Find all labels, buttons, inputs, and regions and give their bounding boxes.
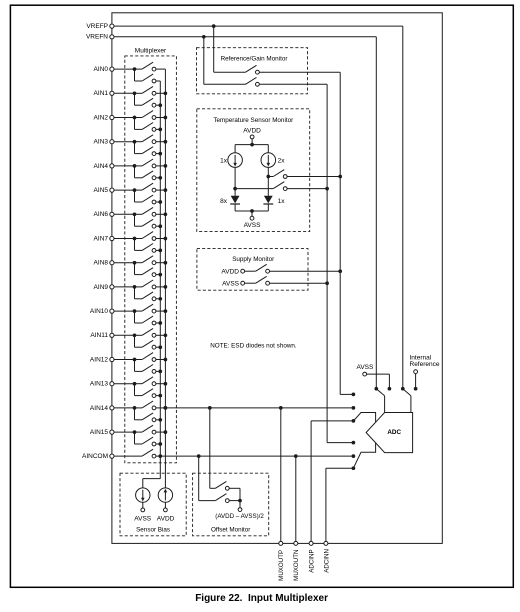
switch AIN13 to N bus xyxy=(134,384,136,396)
wire xyxy=(156,165,166,167)
junction VREFN / reference monitor xyxy=(202,35,206,39)
wire AIN14 input xyxy=(114,407,135,409)
junction net B xyxy=(325,281,329,285)
wire xyxy=(156,238,166,240)
junction N bus xyxy=(158,176,162,180)
switch AIN6 to P bus xyxy=(135,213,143,215)
junction N bus xyxy=(158,418,162,422)
wire xyxy=(156,141,166,143)
junction N bus xyxy=(158,273,162,277)
switch temp monitor upper xyxy=(268,176,273,178)
wire end dot at crossover (MUXOUTN) xyxy=(352,454,356,458)
switch AIN0 to N bus xyxy=(134,69,136,81)
wire end dot VREFP xyxy=(401,387,405,391)
svg-text:AIN11: AIN11 xyxy=(90,332,108,339)
svg-text:AINCOM: AINCOM xyxy=(82,453,108,460)
wire xyxy=(156,298,160,300)
wire xyxy=(156,80,160,82)
svg-text:AIN14: AIN14 xyxy=(90,405,108,412)
wire end dot at crossover (MUXOUTP) xyxy=(352,406,356,410)
svg-text:AIN12: AIN12 xyxy=(90,356,108,363)
switch AIN15 to P bus xyxy=(135,431,143,433)
junction N bus / AINCOM xyxy=(158,454,162,458)
wire AVDD rail xyxy=(235,144,268,146)
node (AVDD - AVSS)/2 xyxy=(239,501,241,508)
svg-text:ADCINP: ADCINP xyxy=(309,549,316,572)
svg-text:AIN8: AIN8 xyxy=(94,260,109,267)
wire AIN0 input xyxy=(114,68,135,70)
junction N bus xyxy=(158,394,162,398)
wire xyxy=(156,249,160,251)
wire xyxy=(229,487,240,489)
junction net B xyxy=(325,187,329,191)
switch AIN14 to N bus xyxy=(134,408,136,420)
svg-text:ADCINN: ADCINN xyxy=(323,549,330,573)
wire monitor net B vertical xyxy=(326,84,328,442)
junction AIN14 / MUXOUTP pin branch xyxy=(279,406,283,410)
switch reference monitor lower xyxy=(204,83,246,85)
svg-text:Offset Monitor: Offset Monitor xyxy=(211,527,250,534)
junction AIN10 xyxy=(133,309,137,313)
junction AIN4 xyxy=(133,164,137,168)
svg-text:AVSS: AVSS xyxy=(356,364,374,371)
switch AIN12 to P bus xyxy=(135,359,143,361)
temperature sensor monitor box xyxy=(197,109,310,232)
junction P bus xyxy=(164,188,168,192)
wire xyxy=(156,128,160,130)
wire VREFP to ADC reference switch xyxy=(114,25,403,27)
svg-text:AVSS: AVSS xyxy=(222,280,240,287)
op-amp ADC xyxy=(366,413,413,453)
switch AINCOM to N bus xyxy=(114,455,142,457)
switch AIN12 to N bus xyxy=(134,360,136,372)
multiplexer box xyxy=(125,56,177,463)
wire xyxy=(156,274,160,276)
svg-text:Sensor Bias: Sensor Bias xyxy=(136,527,170,534)
wire xyxy=(156,92,166,94)
svg-text:1x: 1x xyxy=(220,157,228,164)
wire xyxy=(156,419,160,421)
node MUXOUTN xyxy=(294,541,298,545)
junction P bus xyxy=(164,91,168,95)
switch AIN3 to N bus xyxy=(134,142,136,154)
junction N bus xyxy=(158,321,162,325)
wire end dot net B at crossover xyxy=(352,441,356,445)
diode 8x xyxy=(231,196,240,204)
supply monitor box xyxy=(197,249,308,291)
wire MUXOUTN net: AINCOM row across to crossover xyxy=(156,455,354,457)
junction P bus xyxy=(164,140,168,144)
switch AIN11 to N bus xyxy=(134,335,136,347)
junction AIN0 xyxy=(133,67,137,71)
junction right branch / upper switch xyxy=(266,175,270,179)
wire xyxy=(156,117,166,119)
wire end dot VREFN xyxy=(374,387,378,391)
switch AIN4 to P bus xyxy=(135,165,143,167)
wire xyxy=(156,104,160,106)
crossover switch symbol xyxy=(353,413,375,469)
svg-text:AIN10: AIN10 xyxy=(90,308,108,315)
switch AIN15 to N bus xyxy=(134,432,136,444)
wire P bus (outer) xyxy=(164,69,166,488)
svg-text:Reference/Gain Monitor: Reference/Gain Monitor xyxy=(221,55,288,62)
svg-text:AIN3: AIN3 xyxy=(94,139,109,146)
svg-text:NOTE: ESD diodes not shown.: NOTE: ESD diodes not shown. xyxy=(210,342,297,349)
wire xyxy=(156,370,160,372)
switch AIN9 to P bus xyxy=(135,286,143,288)
switch supply monitor AVSS xyxy=(245,282,256,284)
wire xyxy=(156,383,166,385)
switch AIN10 to P bus xyxy=(135,310,143,312)
node ADCINN xyxy=(324,541,328,545)
switch AIN7 to P bus xyxy=(135,238,143,240)
svg-text:(AVDD – AVSS)/2: (AVDD – AVSS)/2 xyxy=(215,513,264,520)
junction AINCOM / offset monitor branch xyxy=(197,454,201,458)
switch AIN2 to N bus xyxy=(134,118,136,130)
junction P bus / AIN14 row xyxy=(164,406,168,410)
current source 2x (temp) xyxy=(267,145,269,153)
junction P bus xyxy=(164,382,168,386)
junction P bus xyxy=(164,164,168,168)
wire xyxy=(156,334,166,336)
wire to monitor net A xyxy=(259,71,340,73)
node AVSS (temp sensor) xyxy=(251,211,253,216)
wire xyxy=(156,286,166,288)
junction AIN6 xyxy=(133,212,137,216)
junction N bus xyxy=(158,224,162,228)
current source I1 (to AVSS) xyxy=(136,488,150,502)
switch AIN3 to P bus xyxy=(135,141,143,143)
wire xyxy=(156,225,160,227)
wire xyxy=(229,500,240,502)
junction N bus xyxy=(158,442,162,446)
current source 1x (temp) xyxy=(234,145,236,153)
switch AIN4 to N bus xyxy=(134,166,136,178)
svg-text:AIN13: AIN13 xyxy=(90,381,108,388)
junction AIN3 xyxy=(133,140,137,144)
junction AINCOM / MUXOUTN pin branch xyxy=(294,454,298,458)
junction AIN13 xyxy=(133,382,137,386)
wire AINCOM branch into offset monitor xyxy=(198,456,200,501)
node MUXOUTP xyxy=(279,541,283,545)
wire AIN11 input xyxy=(114,334,135,336)
switch AIN6 to N bus xyxy=(134,214,136,226)
wire N bus (inner) xyxy=(159,81,161,479)
junction N bus xyxy=(158,128,162,132)
wire xyxy=(156,443,160,445)
sensor bias box xyxy=(120,473,186,536)
offset monitor box xyxy=(193,473,269,536)
svg-text:8x: 8x xyxy=(220,198,228,205)
junction offset switches common xyxy=(238,499,242,503)
junction N bus xyxy=(158,370,162,374)
wire diode cathodes to AVSS rail xyxy=(234,204,236,211)
wire AIN6 input xyxy=(114,213,135,215)
svg-text:AIN4: AIN4 xyxy=(94,163,109,170)
wire xyxy=(156,213,166,215)
wire ADCINN from pin to crossover xyxy=(325,468,327,541)
wire AIN12 input xyxy=(114,359,135,361)
junction P bus xyxy=(164,333,168,337)
wire xyxy=(156,431,166,433)
svg-text:VREFP: VREFP xyxy=(86,23,108,30)
junction VREFP / reference monitor xyxy=(212,24,216,28)
svg-text:Temperature Sensor Monitor: Temperature Sensor Monitor xyxy=(213,117,293,124)
wire xyxy=(156,153,160,155)
wire xyxy=(156,359,166,361)
node AVDD (sensor bias) xyxy=(164,502,166,508)
svg-text:Figure 22. Input Multiplexer: Figure 22. Input Multiplexer xyxy=(195,593,328,604)
junction P bus xyxy=(164,116,168,120)
switch supply monitor AVDD xyxy=(245,270,256,272)
wire AIN2 input xyxy=(114,117,135,119)
wire xyxy=(156,262,166,264)
node AVSS (sensor bias) xyxy=(142,502,144,508)
svg-text:AIN1: AIN1 xyxy=(94,90,109,97)
wire to monitor net B xyxy=(270,282,328,284)
wire AIN15 input xyxy=(114,431,135,433)
wire xyxy=(156,322,160,324)
junction N bus xyxy=(158,103,162,107)
current source I2 (from AVDD) xyxy=(158,488,172,502)
wire AIN13 input xyxy=(114,383,135,385)
wire AIN1 input xyxy=(114,92,135,94)
switch AIN14 to P bus xyxy=(135,407,143,409)
wire xyxy=(156,310,166,312)
wire AIN5 input xyxy=(114,189,135,191)
wire AIN9 input xyxy=(114,286,135,288)
diode 1x xyxy=(264,196,273,204)
junction AIN5 xyxy=(133,188,137,192)
switch AIN2 to P bus xyxy=(135,117,143,119)
junction P bus xyxy=(164,406,168,410)
junction AIN14 / offset monitor branch xyxy=(208,406,212,410)
junction net A xyxy=(338,269,342,273)
svg-text:AVDD: AVDD xyxy=(243,127,261,134)
junction P bus xyxy=(164,285,168,289)
svg-text:AIN6: AIN6 xyxy=(94,211,109,218)
junction P bus xyxy=(164,212,168,216)
junction N bus xyxy=(158,200,162,204)
junction AIN7 xyxy=(133,237,137,241)
switch AIN7 to N bus xyxy=(134,239,136,251)
svg-text:Reference: Reference xyxy=(410,361,440,368)
switch AIN5 to N bus xyxy=(134,190,136,202)
switch reference mux negative xyxy=(376,389,384,396)
svg-text:AIN15: AIN15 xyxy=(90,429,108,436)
switch offset monitor upper xyxy=(210,487,216,489)
svg-text:2x: 2x xyxy=(278,157,286,164)
switch AIN11 to P bus xyxy=(135,334,143,336)
svg-text:ADC: ADC xyxy=(387,429,401,436)
wire end dot net A at crossover xyxy=(352,393,356,397)
wire AIN7 input xyxy=(114,238,135,240)
wire to monitor net A xyxy=(270,270,341,272)
reference/gain monitor box xyxy=(197,48,308,94)
junction AIN14 xyxy=(133,406,137,410)
wire xyxy=(156,201,160,203)
wire to monitor net B xyxy=(287,188,327,190)
junction AIN2 xyxy=(133,116,137,120)
wire AIN10 input xyxy=(114,310,135,312)
junction AVSS rail xyxy=(250,209,254,213)
svg-text:AVDD: AVDD xyxy=(221,268,239,275)
svg-text:MUXOUTP: MUXOUTP xyxy=(278,550,285,581)
svg-text:AIN0: AIN0 xyxy=(94,66,109,73)
junction AIN12 xyxy=(133,358,137,362)
wire left branch down xyxy=(234,167,236,195)
svg-text:AVSS: AVSS xyxy=(134,515,152,522)
wire MUXOUTP pin xyxy=(280,408,282,542)
junction N bus xyxy=(158,297,162,301)
svg-text:Supply Monitor: Supply Monitor xyxy=(232,256,274,263)
wire to monitor net B xyxy=(259,83,327,85)
figure frame xyxy=(112,13,442,544)
wire ADCINP from pin to crossover xyxy=(310,421,312,542)
wire VREFN drop xyxy=(203,37,205,85)
switch AIN10 to N bus xyxy=(134,311,136,323)
svg-text:1x: 1x xyxy=(278,198,286,205)
switch AIN0 to P bus xyxy=(135,68,143,70)
wire right branch down xyxy=(267,167,269,195)
svg-text:Multiplexer: Multiplexer xyxy=(135,47,167,54)
switch offset monitor lower xyxy=(199,500,216,502)
wire AIN8 input xyxy=(114,262,135,264)
switch AIN1 to P bus xyxy=(135,92,143,94)
svg-text:AVSS: AVSS xyxy=(244,222,262,229)
junction P bus xyxy=(164,237,168,241)
wire VREFN to ADC reference switch xyxy=(114,36,376,38)
junction N bus xyxy=(158,249,162,253)
junction N bus xyxy=(158,152,162,156)
wire xyxy=(156,189,166,191)
switch AIN13 to P bus xyxy=(135,383,143,385)
wire monitor net A vertical xyxy=(339,72,341,394)
svg-text:AIN5: AIN5 xyxy=(94,187,109,194)
wire to monitor net A xyxy=(287,176,340,178)
junction AIN15 xyxy=(133,430,137,434)
junction left branch / lower switch xyxy=(233,187,237,191)
svg-text:AIN9: AIN9 xyxy=(94,284,109,291)
wire VREFP drop xyxy=(213,26,215,72)
junction AIN8 xyxy=(133,261,137,265)
junction AIN9 xyxy=(133,285,137,289)
wire AIN14 branch into offset monitor xyxy=(209,408,211,488)
wire xyxy=(156,346,160,348)
switch AIN1 to N bus xyxy=(134,93,136,105)
switch temp monitor lower xyxy=(235,188,273,190)
svg-text:AVDD: AVDD xyxy=(157,515,175,522)
junction AIN1 xyxy=(133,91,137,95)
junction net A xyxy=(338,175,342,179)
wire xyxy=(156,177,160,179)
wire AIN3 input xyxy=(114,141,135,143)
wire xyxy=(156,68,166,70)
junction P bus xyxy=(164,358,168,362)
wire AIN4 input xyxy=(114,165,135,167)
wire xyxy=(156,407,166,409)
switch AIN8 to P bus xyxy=(135,262,143,264)
svg-text:VREFN: VREFN xyxy=(86,34,108,41)
switch reference monitor upper xyxy=(214,71,246,73)
wire MUXOUTP net: AIN14 row across to crossover xyxy=(165,407,353,409)
svg-text:MUXOUTN: MUXOUTN xyxy=(293,550,300,581)
switch reference mux positive xyxy=(403,389,411,396)
switch AIN5 to P bus xyxy=(135,189,143,191)
junction AIN11 xyxy=(133,333,137,337)
junction P bus xyxy=(164,309,168,313)
svg-text:AIN2: AIN2 xyxy=(94,114,109,121)
wire internal reference to switch xyxy=(415,374,417,389)
wire xyxy=(156,395,160,397)
wire MUXOUTN pin xyxy=(295,456,297,541)
junction AVDD rail xyxy=(250,143,254,147)
wire AVSS to reference switch xyxy=(367,373,390,375)
junction P bus xyxy=(164,261,168,265)
junction P bus xyxy=(164,430,168,434)
svg-text:AIN7: AIN7 xyxy=(94,235,109,242)
junction N bus xyxy=(158,345,162,349)
node ADCINP xyxy=(309,541,313,545)
switch AIN9 to N bus xyxy=(134,287,136,299)
switch AIN8 to N bus xyxy=(134,263,136,275)
